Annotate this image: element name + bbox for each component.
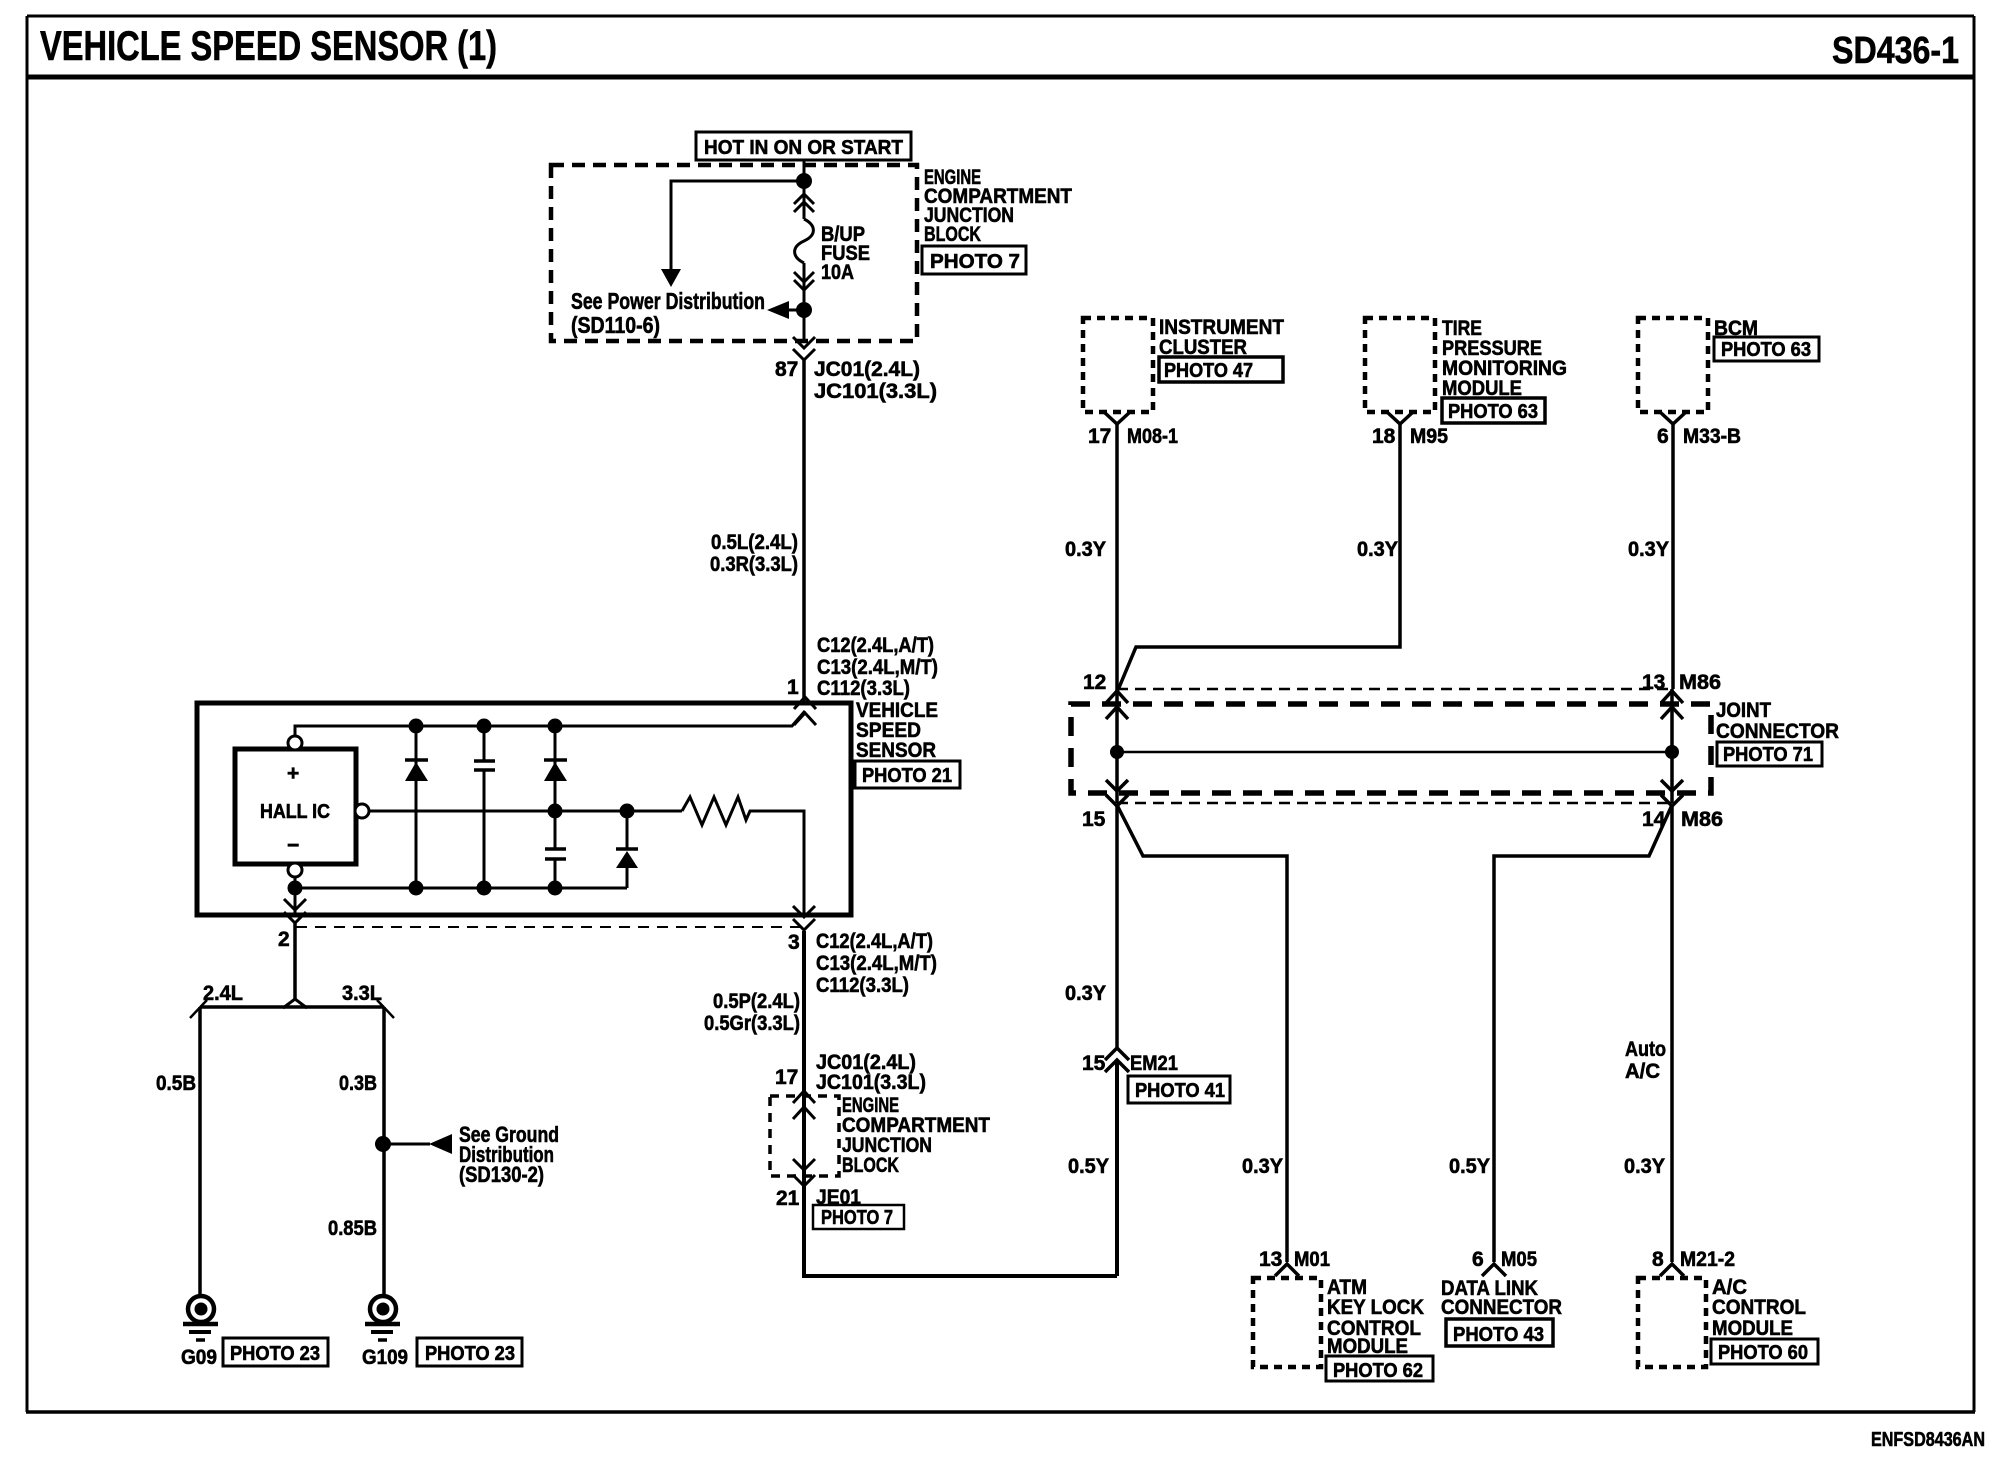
svg-text:PHOTO 23: PHOTO 23 bbox=[425, 1343, 515, 1365]
svg-text:0.3Y: 0.3Y bbox=[1624, 1155, 1665, 1178]
svg-text:G109: G109 bbox=[362, 1346, 408, 1369]
svg-text:JC01(2.4L): JC01(2.4L) bbox=[814, 358, 920, 381]
svg-text:2: 2 bbox=[278, 928, 290, 951]
svg-text:Auto: Auto bbox=[1625, 1038, 1666, 1061]
svg-text:13: 13 bbox=[1642, 671, 1665, 694]
svg-text:0.5L(2.4L): 0.5L(2.4L) bbox=[711, 531, 798, 554]
svg-text:3: 3 bbox=[788, 931, 800, 954]
svg-text:PHOTO 63: PHOTO 63 bbox=[1448, 401, 1538, 423]
svg-text:M21-2: M21-2 bbox=[1680, 1248, 1735, 1271]
svg-text:+: + bbox=[287, 762, 299, 785]
svg-text:PHOTO 71: PHOTO 71 bbox=[1723, 744, 1813, 766]
svg-text:PHOTO 7: PHOTO 7 bbox=[821, 1207, 893, 1229]
svg-text:0.3Y: 0.3Y bbox=[1628, 538, 1669, 561]
svg-text:M95: M95 bbox=[1410, 425, 1448, 448]
svg-text:PHOTO 23: PHOTO 23 bbox=[230, 1343, 320, 1365]
svg-text:M33-B: M33-B bbox=[1683, 425, 1741, 448]
svg-text:PHOTO 60: PHOTO 60 bbox=[1718, 1342, 1808, 1364]
svg-text:PHOTO 62: PHOTO 62 bbox=[1333, 1360, 1423, 1382]
svg-text:ENFSD8436AN: ENFSD8436AN bbox=[1871, 1429, 1985, 1451]
svg-text:1: 1 bbox=[787, 676, 799, 699]
svg-text:0.3Y: 0.3Y bbox=[1357, 538, 1398, 561]
svg-text:MODULE: MODULE bbox=[1712, 1317, 1793, 1340]
svg-text:(SD110-6): (SD110-6) bbox=[571, 312, 660, 338]
svg-text:−: − bbox=[287, 834, 299, 857]
svg-text:PHOTO 63: PHOTO 63 bbox=[1721, 339, 1811, 361]
svg-text:0.5Gr(3.3L): 0.5Gr(3.3L) bbox=[704, 1012, 800, 1035]
svg-text:13: 13 bbox=[1259, 1248, 1282, 1271]
svg-text:6: 6 bbox=[1472, 1248, 1484, 1271]
svg-text:G09: G09 bbox=[181, 1346, 217, 1369]
svg-text:21: 21 bbox=[776, 1187, 800, 1210]
svg-text:C112(3.3L): C112(3.3L) bbox=[816, 974, 909, 997]
svg-text:PHOTO 41: PHOTO 41 bbox=[1135, 1080, 1225, 1102]
svg-text:JC101(3.3L): JC101(3.3L) bbox=[816, 1071, 926, 1094]
svg-text:CONTROL: CONTROL bbox=[1712, 1296, 1806, 1319]
svg-text:M08-1: M08-1 bbox=[1127, 425, 1178, 448]
svg-text:HALL IC: HALL IC bbox=[260, 801, 330, 823]
svg-text:0.5Y: 0.5Y bbox=[1449, 1155, 1490, 1178]
svg-text:See Power Distribution: See Power Distribution bbox=[571, 288, 765, 314]
svg-text:87: 87 bbox=[775, 358, 798, 381]
svg-text:0.3Y: 0.3Y bbox=[1065, 982, 1106, 1005]
svg-text:0.5B: 0.5B bbox=[156, 1072, 196, 1095]
svg-text:(SD130-2): (SD130-2) bbox=[459, 1162, 544, 1187]
svg-text:2.4L: 2.4L bbox=[203, 982, 243, 1005]
svg-text:SD436-1: SD436-1 bbox=[1832, 30, 1959, 72]
svg-text:JOINT: JOINT bbox=[1716, 699, 1771, 722]
svg-text:C13(2.4L,M/T): C13(2.4L,M/T) bbox=[816, 952, 937, 975]
svg-text:PHOTO 21: PHOTO 21 bbox=[862, 765, 952, 787]
svg-text:BLOCK: BLOCK bbox=[924, 223, 981, 246]
svg-text:C13(2.4L,M/T): C13(2.4L,M/T) bbox=[817, 656, 938, 679]
svg-text:18: 18 bbox=[1372, 425, 1396, 448]
svg-text:VEHICLE SPEED SENSOR (1): VEHICLE SPEED SENSOR (1) bbox=[40, 22, 497, 69]
svg-text:M01: M01 bbox=[1294, 1248, 1330, 1271]
svg-text:JC101(3.3L): JC101(3.3L) bbox=[814, 380, 937, 403]
svg-text:C112(3.3L): C112(3.3L) bbox=[817, 677, 910, 700]
svg-text:SENSOR: SENSOR bbox=[856, 739, 936, 762]
svg-text:A/C: A/C bbox=[1625, 1060, 1660, 1083]
svg-text:BLOCK: BLOCK bbox=[842, 1154, 899, 1177]
svg-text:C12(2.4L,A/T): C12(2.4L,A/T) bbox=[817, 634, 934, 657]
svg-text:17: 17 bbox=[775, 1066, 798, 1089]
svg-text:17: 17 bbox=[1088, 425, 1111, 448]
svg-text:0.5Y: 0.5Y bbox=[1068, 1155, 1109, 1178]
svg-text:0.3B: 0.3B bbox=[339, 1072, 377, 1095]
svg-text:12: 12 bbox=[1083, 671, 1106, 694]
svg-text:6: 6 bbox=[1657, 425, 1669, 448]
svg-text:HOT IN ON OR START: HOT IN ON OR START bbox=[704, 137, 903, 159]
svg-text:PHOTO 7: PHOTO 7 bbox=[930, 251, 1020, 273]
svg-text:8: 8 bbox=[1652, 1248, 1664, 1271]
svg-text:C12(2.4L,A/T): C12(2.4L,A/T) bbox=[816, 930, 933, 953]
svg-text:PHOTO 43: PHOTO 43 bbox=[1453, 1324, 1544, 1346]
svg-text:0.3Y: 0.3Y bbox=[1065, 538, 1106, 561]
svg-text:CONNECTOR: CONNECTOR bbox=[1716, 720, 1839, 743]
svg-text:15: 15 bbox=[1082, 1052, 1106, 1075]
svg-text:KEY LOCK: KEY LOCK bbox=[1327, 1296, 1424, 1319]
svg-text:M86: M86 bbox=[1679, 671, 1721, 694]
svg-text:PHOTO 47: PHOTO 47 bbox=[1164, 360, 1253, 382]
svg-text:0.3Y: 0.3Y bbox=[1242, 1155, 1283, 1178]
svg-text:M86: M86 bbox=[1681, 808, 1723, 831]
svg-text:M05: M05 bbox=[1501, 1248, 1537, 1271]
svg-text:0.85B: 0.85B bbox=[328, 1217, 377, 1240]
svg-text:3.3L: 3.3L bbox=[342, 982, 382, 1005]
svg-text:EM21: EM21 bbox=[1130, 1052, 1178, 1075]
svg-text:15: 15 bbox=[1082, 808, 1106, 831]
svg-text:10A: 10A bbox=[821, 261, 854, 284]
svg-text:CONNECTOR: CONNECTOR bbox=[1441, 1296, 1562, 1319]
svg-text:0.3R(3.3L): 0.3R(3.3L) bbox=[710, 553, 798, 576]
svg-text:0.5P(2.4L): 0.5P(2.4L) bbox=[713, 990, 800, 1013]
